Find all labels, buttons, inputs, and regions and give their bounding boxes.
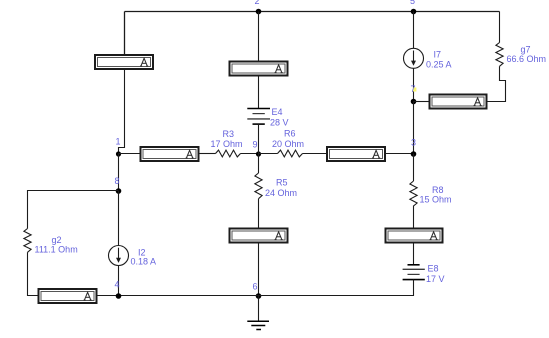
svg-text:66.6 Ohm: 66.6 Ohm [507,54,547,64]
wire node5 down to current source I7 [413,12,415,49]
svg-text:3: 3 [411,138,416,148]
wire node9 to resistor R6 [259,153,278,155]
wire node8 left and down to resistor g2 [28,191,119,229]
svg-text:R6: R6 [284,129,296,139]
node 2 [255,0,262,14]
wire left column upper (node2..ammeter U1) [124,12,126,55]
svg-text:17 Ohm: 17 Ohm [211,139,243,149]
ammeter U5 (bottom middle) [230,229,288,243]
current source I7 [404,48,452,69]
svg-text:20 Ohm: 20 Ohm [272,139,304,149]
wire node2 down to ammeter U4 [258,12,260,61]
node 7 [411,84,417,104]
svg-text:E8: E8 [428,264,439,274]
ground [247,296,269,330]
svg-text:R3: R3 [223,129,235,139]
svg-text:5: 5 [410,0,415,6]
node 4 [115,280,122,299]
svg-text:24 Ohm: 24 Ohm [265,188,297,198]
resistor R3 [211,129,243,157]
wire U3 to node 3 [386,153,414,155]
ammeter U2 (row 154 left) [141,147,199,161]
wire R3 to node 9 [241,153,259,155]
node 9 [253,140,262,157]
svg-text:2: 2 [255,0,260,6]
resistor R6 [272,129,304,157]
resistor R5 [255,173,297,199]
wire top bus from left column to g7 corner [125,11,500,13]
svg-text:I7: I7 [434,50,442,60]
wire I2 down to node 4 [118,266,120,297]
svg-text:4: 4 [115,280,120,290]
wire node8 down to current source I2 [118,191,120,246]
wire node9 down to resistor R5 [258,154,260,174]
svg-text:0.18 A: 0.18 A [131,257,157,267]
svg-text:7: 7 [411,84,416,94]
current source I2 [109,246,157,267]
wire node3 down to resistor R8 [413,154,415,182]
battery E8 [403,264,445,285]
svg-text:8: 8 [115,176,120,186]
wire U7 down to battery E8 [413,244,415,265]
ammeter U7 (bottom right) [386,229,443,243]
svg-text:R5: R5 [276,178,288,188]
wire U4 down to battery E4 [258,77,260,109]
svg-text:9: 9 [253,140,258,150]
node 6 [253,282,262,299]
wire R6 to ammeter U3 [303,153,327,155]
svg-text:0.25 A: 0.25 A [426,60,452,70]
wire node7 down to node 3 [413,102,415,155]
svg-text:E4: E4 [272,107,283,117]
wire R5 down to ammeter U5 [258,199,260,228]
wire node7 to ammeter U6 [414,101,430,103]
wire U2 to resistor R3 [200,153,216,155]
resistor g2 [24,229,78,255]
svg-text:g7: g7 [521,45,531,55]
svg-text:15 Ohm: 15 Ohm [420,195,452,205]
wire E4 down to node 9 [258,124,260,153]
node 3 [411,138,417,157]
ammeter U6 (right, below g7) [430,95,487,109]
ammeter U3 (row 154 right) [327,147,385,161]
wire node1 down to node 8 [118,154,120,192]
wire U5 down to node 6 [258,244,260,297]
svg-text:28 V: 28 V [270,118,289,128]
ammeter U1 (top left) [95,55,153,69]
svg-text:6: 6 [253,282,258,292]
ammeter U4 (top middle) [230,62,288,76]
wire I7 down to node 7 [413,68,415,101]
resistor R8 [410,181,452,206]
svg-text:17 V: 17 V [426,274,445,284]
wire node1 to ammeter U2 [119,153,140,155]
wire R8 down to ammeter U7 [413,206,415,228]
svg-text:1: 1 [116,137,121,147]
ammeter U8 (bottom left) [39,289,97,303]
battery E4 [247,107,288,128]
node 1 [116,137,122,157]
wire g2 down to ammeter U8 [28,252,39,295]
node 8 [115,176,122,194]
resistor g7 [496,43,546,67]
wire bottom bus [98,295,414,297]
svg-text:111.1 Ohm: 111.1 Ohm [35,245,78,255]
wire g7 corner down from top bus [499,12,501,43]
wire left column below U1 with jog to node 1 [119,70,125,154]
svg-text:R8: R8 [432,185,444,195]
wire g7 down to ammeter U6 right side [488,66,506,101]
node 5 [410,0,416,14]
wire E8 down to bottom bus [413,280,415,296]
svg-text:g2: g2 [52,235,62,245]
